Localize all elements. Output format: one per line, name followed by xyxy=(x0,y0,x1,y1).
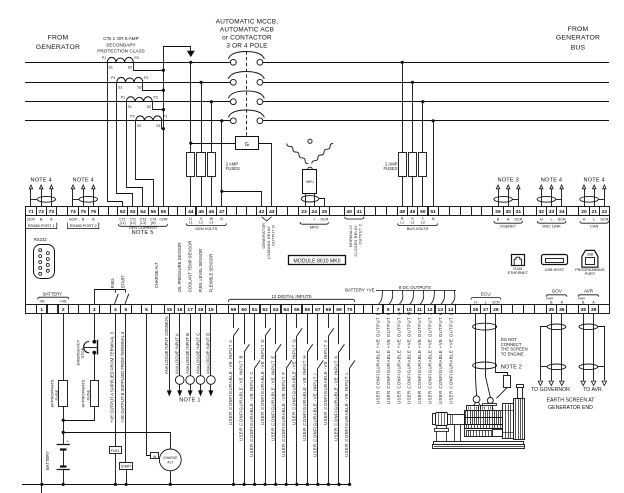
svg-text:START: START xyxy=(121,275,126,289)
svg-text:L: L xyxy=(550,218,552,222)
svg-text:43: 43 xyxy=(269,209,275,215)
svg-text:CLOSED RELAY: CLOSED RELAY xyxy=(354,225,358,257)
svg-text:G: G xyxy=(245,142,249,148)
svg-text:39: 39 xyxy=(591,307,597,313)
svg-text:5: 5 xyxy=(125,307,128,313)
svg-text:GENERATOR: GENERATOR xyxy=(36,44,80,51)
svg-text:USER CONFIGURABLE -VE INPUT H: USER CONFIGURABLE -VE INPUT H xyxy=(302,355,307,441)
svg-text:2: 2 xyxy=(62,307,65,313)
svg-text:OIL PRESSURE SENSOR: OIL PRESSURE SENSOR xyxy=(177,243,182,293)
svg-text:P2: P2 xyxy=(144,76,148,80)
svg-text:ALT: ALT xyxy=(167,460,173,464)
svg-text:MSC LINK: MSC LINK xyxy=(542,224,561,229)
svg-text:USER CONFIGURABLE -VE INPUT K: USER CONFIGURABLE -VE INPUT K xyxy=(334,355,339,441)
svg-text:USB HOST: USB HOST xyxy=(545,268,565,272)
svg-text:H: H xyxy=(474,301,477,305)
svg-text:TO AVR: TO AVR xyxy=(583,387,602,393)
svg-text:51: 51 xyxy=(430,209,436,215)
svg-text:START: START xyxy=(121,465,132,469)
svg-text:USER CONFIGURABLE -VE INPUT D: USER CONFIGURABLE -VE INPUT D xyxy=(260,339,265,425)
svg-text:L2: L2 xyxy=(199,221,203,225)
svg-text:NOTE 4: NOTE 4 xyxy=(30,177,51,183)
svg-text:BATTERY: BATTERY xyxy=(43,291,62,296)
svg-text:74: 74 xyxy=(70,209,76,215)
svg-text:+: + xyxy=(67,439,70,444)
svg-text:USER CONFIGURABLE +VE OUTPUT F: USER CONFIGURABLE +VE OUTPUT F xyxy=(386,312,391,404)
svg-text:48: 48 xyxy=(399,209,405,215)
svg-text:55: 55 xyxy=(161,209,167,215)
svg-text:68: 68 xyxy=(326,307,332,313)
svg-text:CHARGE ALT: CHARGE ALT xyxy=(154,262,159,289)
svg-text:73: 73 xyxy=(49,209,55,215)
svg-text:NOTE 2: NOTE 2 xyxy=(501,364,522,370)
svg-text:34: 34 xyxy=(559,209,565,215)
svg-text:B: B xyxy=(497,218,500,222)
svg-text:76: 76 xyxy=(91,209,97,215)
svg-text:31: 31 xyxy=(516,209,522,215)
svg-text:FUSES: FUSES xyxy=(384,166,398,171)
svg-text:BUS: BUS xyxy=(571,44,586,51)
svg-text:65: 65 xyxy=(294,307,300,313)
svg-text:SCR: SCR xyxy=(600,218,608,222)
svg-text:FUEL: FUEL xyxy=(111,449,120,453)
svg-text:H: H xyxy=(540,218,543,222)
svg-text:41: 41 xyxy=(357,209,363,215)
svg-text:8 DC OUTPUTS: 8 DC OUTPUTS xyxy=(399,285,431,290)
svg-text:35: 35 xyxy=(549,307,555,313)
svg-text:NOTE 4: NOTE 4 xyxy=(541,177,562,183)
svg-text:SCR: SCR xyxy=(558,218,566,222)
svg-text:FUSES: FUSES xyxy=(226,166,240,171)
svg-text:S1: S1 xyxy=(127,105,131,109)
svg-text:USER CONFIGURABLE +VE OUTPUT I: USER CONFIGURABLE +VE OUTPUT I xyxy=(417,314,422,404)
svg-text:1: 1 xyxy=(40,307,43,313)
svg-text:MPU: MPU xyxy=(306,180,314,184)
svg-text:-VE: -VE xyxy=(39,300,46,304)
svg-text:19: 19 xyxy=(208,307,214,313)
svg-text:33: 33 xyxy=(549,209,555,215)
svg-text:52: 52 xyxy=(120,209,126,215)
svg-text:SCR: SCR xyxy=(27,218,35,222)
svg-text:USER CONFIGURABLE -VE INPUT J: USER CONFIGURABLE -VE INPUT J xyxy=(323,340,328,425)
svg-text:72: 72 xyxy=(38,209,44,215)
svg-text:NOTE 4: NOTE 4 xyxy=(583,177,604,183)
svg-text:L: L xyxy=(593,218,595,222)
svg-text:61: 61 xyxy=(252,307,258,313)
svg-text:12: 12 xyxy=(427,307,433,313)
svg-text:11: 11 xyxy=(417,307,422,313)
svg-text:P2: P2 xyxy=(134,56,138,60)
svg-text:SECONDARY: SECONDARY xyxy=(106,42,136,47)
svg-text:+VE OUTPUT B SUPPLIED FROM TER: +VE OUTPUT B SUPPLIED FROM TERMINAL 3 xyxy=(120,331,125,423)
svg-text:27: 27 xyxy=(483,307,489,313)
svg-text:ETHERNET: ETHERNET xyxy=(508,271,529,275)
svg-text:66: 66 xyxy=(305,307,311,313)
svg-text:USER CONFIGURABLE -VE INPUT L: USER CONFIGURABLE -VE INPUT L xyxy=(344,372,349,457)
svg-text:USER CONFIGURABLE -VE INPUT A: USER CONFIGURABLE -VE INPUT A xyxy=(228,340,233,425)
svg-text:25: 25 xyxy=(322,209,328,215)
svg-text:60: 60 xyxy=(241,307,247,313)
svg-text:45: 45 xyxy=(198,209,204,215)
svg-text:71: 71 xyxy=(28,209,34,215)
svg-text:BATTERY: BATTERY xyxy=(45,451,50,470)
svg-text:N: N xyxy=(432,217,435,221)
svg-text:ANALOGUE INPUT D: ANALOGUE INPUT D xyxy=(206,333,211,374)
svg-text:USER CONFIGURABLE -VE INPUT C: USER CONFIGURABLE -VE INPUT C xyxy=(249,371,254,457)
svg-text:L3: L3 xyxy=(421,221,425,225)
svg-text:or CONTACTOR: or CONTACTOR xyxy=(222,35,272,42)
svg-text:S1: S1 xyxy=(156,124,160,128)
svg-text:N: N xyxy=(220,217,223,221)
svg-text:PROTECTION CLASS: PROTECTION CLASS xyxy=(97,49,144,54)
svg-text:FLEXIBLE SENSOR: FLEXIBLE SENSOR xyxy=(208,254,213,292)
svg-text:59: 59 xyxy=(231,307,237,313)
svg-text:ANALOGUE INPUT COMMON: ANALOGUE INPUT COMMON xyxy=(164,316,169,374)
svg-text:BATTERY +VE: BATTERY +VE xyxy=(345,288,374,293)
svg-text:NOTE 4: NOTE 4 xyxy=(72,177,93,183)
svg-text:NOTE 5: NOTE 5 xyxy=(132,230,154,236)
svg-text:S2: S2 xyxy=(147,105,151,109)
svg-text:MODULE 8610 MKII: MODULE 8610 MKII xyxy=(293,259,340,265)
svg-text:50: 50 xyxy=(420,209,426,215)
svg-text:22: 22 xyxy=(602,209,608,215)
svg-text:30: 30 xyxy=(505,209,511,215)
svg-text:FUSE: FUSE xyxy=(54,390,59,401)
svg-text:62: 62 xyxy=(262,307,268,313)
svg-text:26: 26 xyxy=(473,307,479,313)
svg-text:USER CONFIGURABLE -VE INPUT B: USER CONFIGURABLE -VE INPUT B xyxy=(239,355,244,441)
svg-text:15: 15 xyxy=(167,307,173,313)
svg-text:OUTPUT C: OUTPUT C xyxy=(359,223,363,244)
svg-text:RS232: RS232 xyxy=(34,237,48,242)
svg-text:38: 38 xyxy=(580,307,586,313)
svg-text:CTs 1 OR 5 AMP: CTs 1 OR 5 AMP xyxy=(103,36,138,41)
svg-text:SCR: SCR xyxy=(69,218,77,222)
svg-text:NOTE 3: NOTE 3 xyxy=(497,177,518,183)
svg-text:SCR: SCR xyxy=(514,218,522,222)
svg-text:S2: S2 xyxy=(137,124,141,128)
svg-text:S2: S2 xyxy=(137,86,141,90)
svg-text:CAN: CAN xyxy=(590,224,598,229)
svg-text:USER CONFIGURABLE -VE INPUT F: USER CONFIGURABLE -VE INPUT F xyxy=(281,372,286,457)
svg-text:USER CONFIGURABLE +VE OUTPUT L: USER CONFIGURABLE +VE OUTPUT L xyxy=(448,312,453,404)
svg-text:40: 40 xyxy=(346,209,352,215)
svg-text:21: 21 xyxy=(591,209,597,215)
svg-text:20: 20 xyxy=(581,209,587,215)
svg-text:49: 49 xyxy=(410,209,416,215)
svg-text:18: 18 xyxy=(198,307,204,313)
svg-text:L2: L2 xyxy=(411,221,415,225)
svg-text:54: 54 xyxy=(140,209,146,215)
svg-text:A: A xyxy=(507,218,510,222)
svg-text:SCR: SCR xyxy=(320,218,328,222)
svg-text:63: 63 xyxy=(273,307,279,313)
svg-text:32: 32 xyxy=(539,209,545,215)
svg-text:PORT: PORT xyxy=(585,272,596,276)
svg-text:GENERATOR: GENERATOR xyxy=(262,223,266,249)
svg-text:COM: COM xyxy=(159,218,167,222)
svg-text:FUEL LEVEL SENSOR: FUEL LEVEL SENSOR xyxy=(198,249,203,292)
svg-text:USER CONFIGURABLE +VE OUTPUT E: USER CONFIGURABLE +VE OUTPUT E xyxy=(376,312,381,404)
svg-text:46: 46 xyxy=(209,209,215,215)
svg-text:P1: P1 xyxy=(102,56,106,60)
svg-text:USER CONFIGURABLE -VE INPUT G: USER CONFIGURABLE -VE INPUT G xyxy=(291,339,296,425)
svg-text:12 DIGITAL INPUTS: 12 DIGITAL INPUTS xyxy=(271,294,311,299)
svg-text:ANALOGUE INPUT A: ANALOGUE INPUT A xyxy=(175,333,180,374)
svg-text:14: 14 xyxy=(448,307,454,313)
svg-text:28: 28 xyxy=(493,307,499,313)
svg-text:P1: P1 xyxy=(121,95,125,99)
svg-text:USER CONFIGURABLE +VE OUTPUT H: USER CONFIGURABLE +VE OUTPUT H xyxy=(407,312,412,404)
svg-text:USER CONFIGURABLE -VE INPUT E: USER CONFIGURABLE -VE INPUT E xyxy=(270,355,275,441)
svg-text:FROM: FROM xyxy=(568,26,589,33)
svg-text:ANALOGUE INPUT C: ANALOGUE INPUT C xyxy=(195,333,200,374)
svg-text:STOP: STOP xyxy=(80,347,85,358)
svg-text:75: 75 xyxy=(80,209,86,215)
svg-text:S2: S2 xyxy=(128,66,132,70)
svg-text:A: A xyxy=(92,218,95,222)
svg-text:P2: P2 xyxy=(153,95,157,99)
svg-text:ECU: ECU xyxy=(481,292,491,297)
svg-text:H: H xyxy=(583,218,586,222)
svg-text:EARTH SCREEN AT: EARTH SCREEN AT xyxy=(547,397,596,403)
svg-text:B: B xyxy=(40,218,43,222)
svg-text:L3: L3 xyxy=(210,221,214,225)
svg-text:TO GOVERNOR: TO GOVERNOR xyxy=(531,387,570,393)
svg-text:GENERATOR END: GENERATOR END xyxy=(548,405,593,411)
svg-text:FUEL: FUEL xyxy=(110,277,115,288)
svg-text:4: 4 xyxy=(114,307,117,313)
svg-text:3: 3 xyxy=(93,307,96,313)
svg-text:DSENET: DSENET xyxy=(500,224,516,229)
svg-text:GEN VOLTS: GEN VOLTS xyxy=(195,226,217,231)
svg-text:24: 24 xyxy=(311,209,317,215)
svg-text:SCR: SCR xyxy=(492,301,500,305)
svg-text:P1: P1 xyxy=(111,76,115,80)
svg-text:17: 17 xyxy=(187,307,193,313)
svg-text:FUSE: FUSE xyxy=(85,390,90,401)
svg-text:USER CONFIGURABLE -VE INPUT I: USER CONFIGURABLE -VE INPUT I xyxy=(313,373,318,457)
svg-text:OUTPUT D: OUTPUT D xyxy=(272,225,276,246)
svg-text:L: L xyxy=(485,301,487,305)
svg-text:USER CONFIGURABLE +VE OUTPUT G: USER CONFIGURABLE +VE OUTPUT G xyxy=(396,311,401,404)
svg-text:3 OR 4 POLE: 3 OR 4 POLE xyxy=(226,43,267,50)
svg-text:6: 6 xyxy=(145,307,148,313)
svg-text:42: 42 xyxy=(259,209,265,215)
svg-text:ANALOGUE INPUT B: ANALOGUE INPUT B xyxy=(185,333,190,374)
svg-text:16: 16 xyxy=(177,307,183,313)
svg-text:BUS VOLTS: BUS VOLTS xyxy=(407,226,429,231)
svg-text:W: W xyxy=(153,455,157,459)
svg-text:GENERATOR: GENERATOR xyxy=(556,35,600,42)
svg-text:NOTE 1: NOTE 1 xyxy=(179,397,200,403)
svg-text:70: 70 xyxy=(347,307,353,313)
svg-text:FROM: FROM xyxy=(48,35,69,42)
svg-text:23: 23 xyxy=(301,209,307,215)
svg-text:GOV: GOV xyxy=(552,289,563,294)
svg-text:44: 44 xyxy=(188,209,194,215)
svg-text:69: 69 xyxy=(336,307,342,313)
svg-text:RS485 PORT 1: RS485 PORT 1 xyxy=(28,223,55,228)
svg-text:S1: S1 xyxy=(118,86,122,90)
svg-text:36: 36 xyxy=(559,307,565,313)
svg-text:L1: L1 xyxy=(400,221,404,225)
svg-text:AUTOMATIC MCCB,: AUTOMATIC MCCB, xyxy=(216,18,278,25)
svg-text:NORMALLY: NORMALLY xyxy=(349,224,353,247)
svg-text:A: A xyxy=(50,218,53,222)
svg-text:USB: USB xyxy=(587,252,594,256)
svg-text:67: 67 xyxy=(315,307,321,313)
svg-text:56: 56 xyxy=(150,209,156,215)
svg-text:AUTOMATIC ACB: AUTOMATIC ACB xyxy=(220,27,274,34)
svg-text:USER CONFIGURABLE +VE OUTPUT J: USER CONFIGURABLE +VE OUTPUT J xyxy=(428,313,433,404)
svg-text:AVR: AVR xyxy=(584,289,594,294)
svg-text:LOADING RELAY: LOADING RELAY xyxy=(267,225,271,259)
svg-text:+VE OUTPUT A SUPPLIED FROM TER: +VE OUTPUT A SUPPLIED FROM TERMINAL 3 xyxy=(109,332,114,423)
svg-text:64: 64 xyxy=(283,307,289,313)
svg-text:47: 47 xyxy=(219,209,225,215)
svg-text:B: B xyxy=(82,218,85,222)
svg-text:8: 8 xyxy=(387,307,390,313)
svg-text:TO ENGINE: TO ENGINE xyxy=(501,351,524,356)
svg-text:COOLANT TEMP SENSOR: COOLANT TEMP SENSOR xyxy=(188,241,193,293)
svg-text:P2: P2 xyxy=(130,115,134,119)
svg-text:S1: S1 xyxy=(108,66,112,70)
svg-text:L1: L1 xyxy=(189,221,193,225)
svg-text:53: 53 xyxy=(130,209,136,215)
svg-text:+VE: +VE xyxy=(60,300,68,304)
svg-text:MPU: MPU xyxy=(310,224,319,229)
svg-text:(L1): (L1) xyxy=(120,221,126,225)
svg-text:USER CONFIGURABLE +VE OUTPUT K: USER CONFIGURABLE +VE OUTPUT K xyxy=(438,312,443,404)
svg-text:RS485 PORT 2: RS485 PORT 2 xyxy=(70,223,97,228)
svg-text:29: 29 xyxy=(495,209,501,215)
